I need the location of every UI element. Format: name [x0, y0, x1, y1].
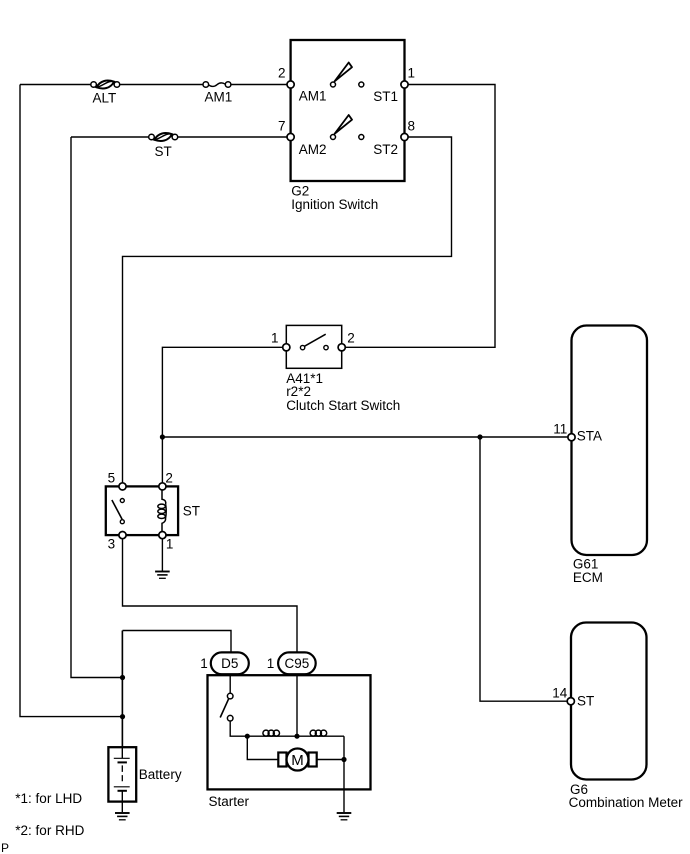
svg-text:ST: ST: [183, 504, 200, 519]
svg-text:2: 2: [165, 471, 173, 486]
svg-text:P: P: [1, 841, 9, 854]
svg-text:C95: C95: [285, 656, 310, 671]
svg-text:ECM: ECM: [573, 570, 603, 585]
svg-text:Combination Meter: Combination Meter: [569, 795, 684, 810]
svg-text:1: 1: [166, 537, 174, 552]
svg-text:ST: ST: [155, 144, 172, 159]
svg-text:2: 2: [278, 66, 286, 81]
svg-text:8: 8: [408, 119, 416, 134]
svg-text:*2: for RHD: *2: for RHD: [15, 823, 84, 838]
svg-text:D5: D5: [221, 656, 238, 671]
svg-text:STA: STA: [577, 429, 602, 444]
svg-text:7: 7: [278, 119, 286, 134]
svg-text:M: M: [291, 752, 304, 769]
svg-text:1: 1: [200, 656, 208, 671]
svg-text:Ignition Switch: Ignition Switch: [291, 197, 378, 212]
svg-text:1: 1: [267, 656, 275, 671]
svg-text:Battery: Battery: [139, 767, 182, 782]
svg-text:5: 5: [108, 471, 116, 486]
svg-text:2: 2: [347, 331, 355, 346]
svg-text:Starter: Starter: [209, 794, 250, 809]
svg-text:AM2: AM2: [299, 142, 327, 157]
svg-text:1: 1: [271, 331, 279, 346]
svg-text:ALT: ALT: [93, 91, 117, 106]
svg-text:1: 1: [408, 66, 416, 81]
svg-text:3: 3: [108, 537, 116, 552]
svg-text:11: 11: [553, 422, 567, 437]
svg-text:AM1: AM1: [205, 89, 233, 104]
svg-text:ST: ST: [577, 694, 594, 709]
svg-text:14: 14: [552, 686, 568, 701]
svg-text:r2*2: r2*2: [286, 384, 311, 399]
svg-text:AM1: AM1: [299, 88, 327, 103]
svg-text:ST2: ST2: [373, 142, 398, 157]
svg-text:ST1: ST1: [373, 89, 398, 104]
svg-text:*1: for LHD: *1: for LHD: [15, 791, 82, 806]
svg-text:Clutch Start Switch: Clutch Start Switch: [286, 398, 400, 413]
